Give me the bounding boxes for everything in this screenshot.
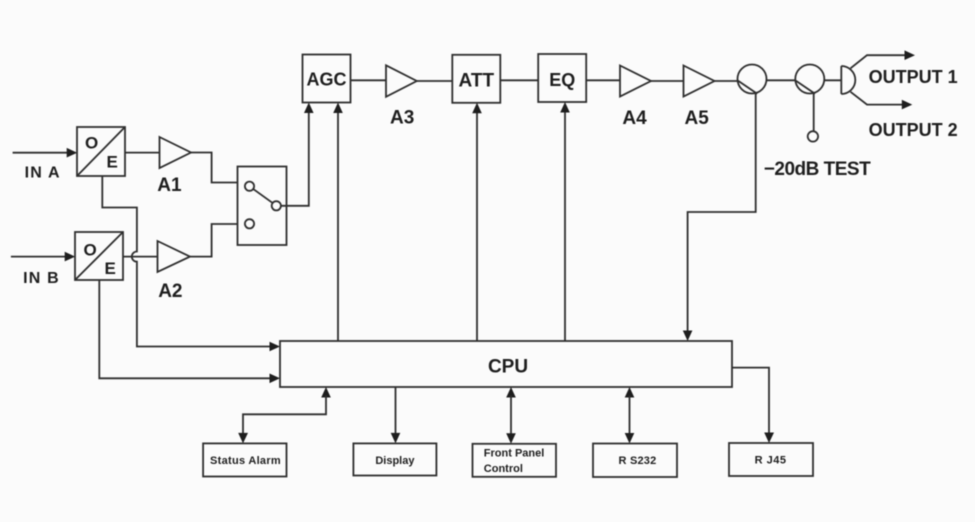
wire: coupler 2 to splitter xyxy=(824,79,841,81)
svg-text:A5: A5 xyxy=(685,108,710,129)
amplifier A1 xyxy=(157,137,191,196)
Front Panel Control block xyxy=(473,444,557,477)
wire: IN B input line xyxy=(11,252,75,262)
svg-text:EQ: EQ xyxy=(549,70,575,90)
ATT block xyxy=(452,55,500,103)
wire: switch output to AGC xyxy=(281,103,314,206)
amplifier A4 xyxy=(620,66,651,130)
wire: A1 to switch input 1 xyxy=(191,153,238,183)
svg-text:IN B: IN B xyxy=(23,270,60,287)
wire: EQ to A4 xyxy=(586,79,620,81)
svg-text:O: O xyxy=(84,241,97,260)
O/E converter A xyxy=(77,127,125,176)
wire: O/E B to A2 xyxy=(123,256,158,258)
wire: CPU to RJ45 xyxy=(732,368,774,443)
svg-text:E: E xyxy=(105,259,116,278)
AGC block xyxy=(303,55,351,103)
wire: coupler 1 to coupler 2 xyxy=(767,79,796,81)
wire: CPU to Display xyxy=(391,387,401,443)
wire: coupler 1 tap to CPU xyxy=(683,93,756,341)
svg-text:R J45: R J45 xyxy=(755,455,787,467)
svg-text:CPU: CPU xyxy=(488,356,528,377)
wire: ATT to EQ xyxy=(500,79,538,81)
svg-text:OUTPUT 1: OUTPUT 1 xyxy=(869,67,958,87)
directional coupler 2 xyxy=(795,65,824,94)
wire: coupler 2 tap to test point xyxy=(813,93,815,131)
RS232 block xyxy=(593,444,677,478)
wire: A3 to ATT xyxy=(417,80,453,82)
EQ block xyxy=(538,54,586,102)
wire: A4 to A5 xyxy=(651,80,684,82)
CPU block xyxy=(280,341,732,387)
svg-text:E: E xyxy=(107,153,118,172)
wire: A2 to switch input 2 xyxy=(190,224,238,257)
svg-text:Front Panel: Front Panel xyxy=(484,448,545,460)
wire: CPU to ATT control xyxy=(472,103,482,341)
svg-text:AGC: AGC xyxy=(307,69,347,89)
wire: O/E A to A1 xyxy=(125,152,160,154)
amplifier A5 xyxy=(684,66,715,130)
wire: CPU to Front Panel Control (bidirectional) xyxy=(506,387,516,444)
test point terminal xyxy=(808,131,818,141)
svg-text:Display: Display xyxy=(375,455,415,467)
Display block xyxy=(353,443,436,475)
svg-text:A2: A2 xyxy=(158,281,182,302)
wire: CPU to Status Alarm xyxy=(238,387,331,443)
svg-text:IN A: IN A xyxy=(25,165,61,182)
switch S1 (A/B selector) xyxy=(238,167,287,246)
wire: splitter to OUTPUT 2 xyxy=(851,92,913,110)
RJ45 block xyxy=(729,443,813,476)
svg-text:R S232: R S232 xyxy=(619,455,657,467)
splitter (output divider) xyxy=(841,66,855,94)
svg-text:A3: A3 xyxy=(390,107,414,128)
O/E converter B xyxy=(75,232,123,280)
wire: IN A input line xyxy=(13,148,78,158)
svg-text:OUTPUT 2: OUTPUT 2 xyxy=(869,120,958,140)
svg-text:O: O xyxy=(85,134,98,153)
Status Alarm block xyxy=(203,443,286,476)
directional coupler 1 xyxy=(738,65,767,94)
amplifier A3 xyxy=(386,65,417,128)
svg-text:Status Alarm: Status Alarm xyxy=(210,455,281,467)
svg-text:−20dB TEST: −20dB TEST xyxy=(764,159,871,180)
svg-text:A1: A1 xyxy=(157,175,182,196)
amplifier A2 xyxy=(158,241,191,302)
wire: splitter to OUTPUT 1 xyxy=(851,50,916,68)
wire: CPU to AGC control xyxy=(333,103,343,342)
wire: AGC to A3 xyxy=(351,79,387,81)
wire: O/E A monitor to CPU (with hop over B line) xyxy=(102,176,280,351)
wire: A5 to coupler 1 xyxy=(715,80,738,82)
wire: O/E B monitor to CPU xyxy=(99,280,280,383)
svg-text:ATT: ATT xyxy=(459,70,495,91)
wire: CPU to RS232 (bidirectional) xyxy=(625,387,635,444)
svg-text:A4: A4 xyxy=(622,108,647,129)
wire: CPU to EQ control xyxy=(560,102,570,341)
svg-text:Control: Control xyxy=(484,463,523,475)
